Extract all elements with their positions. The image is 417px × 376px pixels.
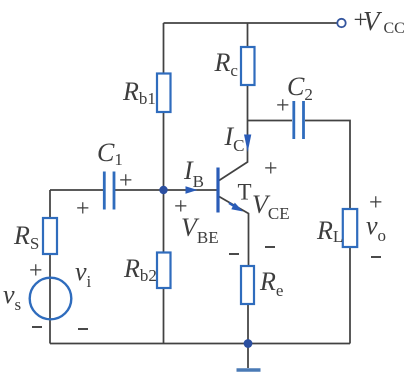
svg-text:Rb1: Rb1 <box>122 77 156 108</box>
svg-text:+: + <box>276 93 290 119</box>
svg-text:RL: RL <box>316 216 343 246</box>
svg-text:IC: IC <box>224 122 245 155</box>
svg-text:VCE: VCE <box>252 190 290 223</box>
svg-text:vi: vi <box>75 257 92 291</box>
svg-text:Re: Re <box>259 267 283 300</box>
svg-text:V: V <box>363 6 383 36</box>
svg-text:T: T <box>238 180 252 205</box>
svg-text:RS: RS <box>13 221 39 253</box>
svg-text:vs: vs <box>3 280 21 314</box>
svg-text:C2: C2 <box>287 72 313 104</box>
svg-text:Rb2: Rb2 <box>123 254 157 285</box>
svg-text:+: + <box>29 258 43 284</box>
svg-text:IB: IB <box>183 156 204 191</box>
svg-text:+: + <box>76 196 90 222</box>
svg-text:vo: vo <box>366 211 386 245</box>
svg-text:+: + <box>174 194 188 220</box>
svg-text:Rc: Rc <box>214 48 239 80</box>
svg-text:CC: CC <box>384 20 405 37</box>
svg-text:C1: C1 <box>97 138 123 169</box>
svg-text:+: + <box>369 190 383 216</box>
svg-text:+: + <box>119 168 133 194</box>
svg-text:+: + <box>264 156 278 182</box>
